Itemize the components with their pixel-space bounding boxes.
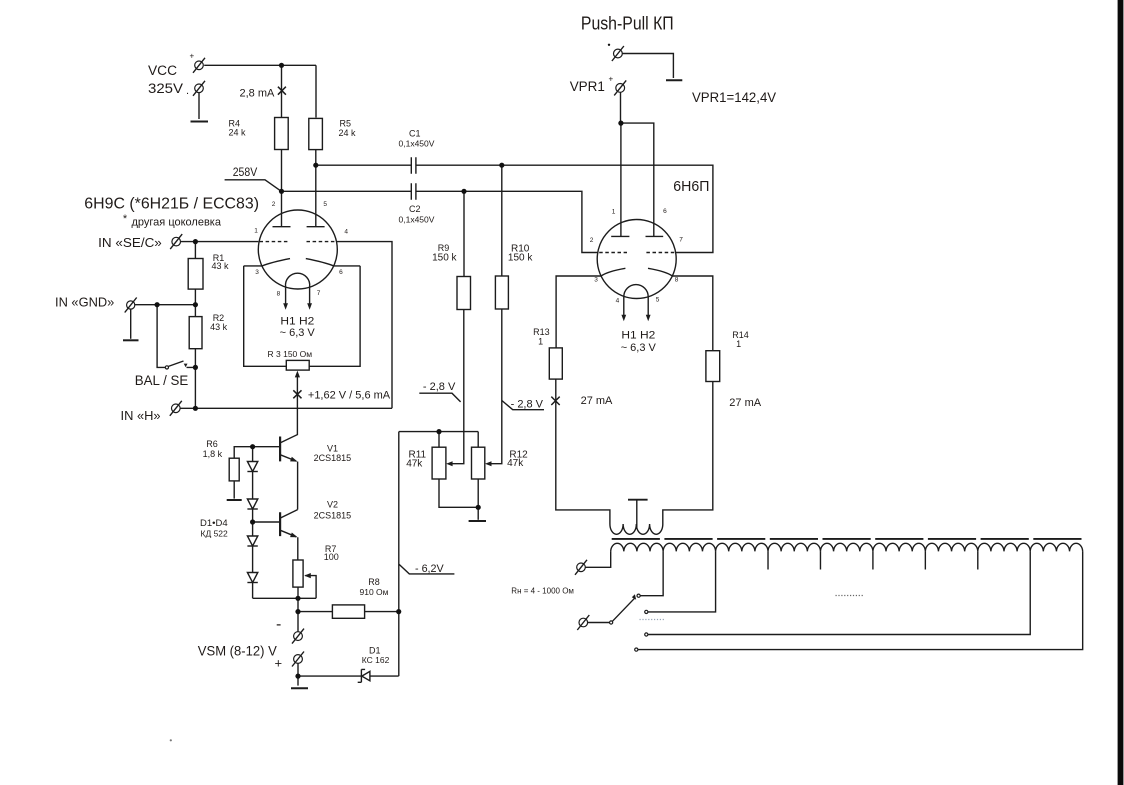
svg-text:5: 5 — [323, 201, 327, 208]
svg-text:27 mA: 27 mA — [581, 395, 613, 407]
svg-text:910 Ом: 910 Ом — [360, 587, 389, 597]
svg-text:6: 6 — [339, 269, 343, 276]
svg-text:47k: 47k — [507, 458, 524, 469]
svg-text:IN «SE/C»: IN «SE/C» — [98, 235, 162, 250]
svg-text:8: 8 — [675, 277, 679, 284]
svg-text:C1: C1 — [409, 129, 421, 139]
svg-text:100: 100 — [324, 552, 339, 562]
svg-text:R5: R5 — [340, 118, 352, 128]
svg-text:43 k: 43 k — [212, 261, 230, 271]
svg-text:2: 2 — [590, 237, 594, 244]
svg-text:КС 162: КС 162 — [362, 655, 390, 665]
svg-text:0,1x450V: 0,1x450V — [399, 215, 435, 225]
svg-text:- 2,8 V: - 2,8 V — [511, 399, 544, 411]
svg-text:D1: D1 — [369, 645, 381, 655]
svg-text:258V: 258V — [233, 167, 258, 179]
svg-text:V1: V1 — [327, 443, 338, 453]
svg-text:43 k: 43 k — [210, 322, 228, 332]
svg-text:27 mA: 27 mA — [729, 397, 761, 409]
svg-text:~ 6,3 V: ~ 6,3 V — [280, 327, 316, 339]
svg-text:+: + — [609, 75, 614, 84]
svg-text:.: . — [186, 85, 189, 97]
svg-text:2CS1815: 2CS1815 — [314, 453, 352, 463]
svg-text:47k: 47k — [406, 459, 423, 470]
svg-text:2CS1815: 2CS1815 — [314, 511, 352, 521]
svg-text:0,1x450V: 0,1x450V — [399, 139, 435, 149]
svg-text:C2: C2 — [409, 204, 421, 214]
svg-text:+: + — [275, 656, 283, 671]
svg-text:D1•D4: D1•D4 — [200, 518, 228, 529]
svg-text:BAL / SE: BAL / SE — [135, 372, 189, 388]
svg-text:V2: V2 — [327, 500, 338, 510]
svg-text:VPR1=142,4V: VPR1=142,4V — [692, 90, 776, 105]
svg-text:6: 6 — [663, 208, 667, 215]
svg-text:- 6,2V: - 6,2V — [415, 563, 444, 575]
svg-text:R6: R6 — [206, 439, 218, 449]
svg-text:4: 4 — [616, 297, 620, 304]
svg-text:R13: R13 — [533, 327, 550, 337]
svg-text:Rн = 4 - 1000 Ом: Rн = 4 - 1000 Ом — [511, 587, 574, 596]
svg-text:24 k: 24 k — [229, 128, 247, 138]
svg-text:VCC: VCC — [148, 63, 177, 78]
svg-text:7: 7 — [679, 237, 683, 244]
svg-text:5: 5 — [656, 297, 660, 304]
svg-text:R8: R8 — [368, 577, 380, 587]
svg-text:7: 7 — [317, 290, 321, 297]
svg-text:1: 1 — [538, 336, 543, 346]
svg-text:Push-Pull КП: Push-Pull КП — [581, 14, 674, 34]
svg-text:IN «H»: IN «H» — [121, 408, 161, 423]
svg-text:- 2,8 V: - 2,8 V — [423, 381, 456, 393]
svg-text:R 3 150 Ом: R 3 150 Ом — [268, 349, 313, 359]
svg-text:150 k: 150 k — [432, 253, 457, 264]
svg-text:1: 1 — [612, 209, 616, 216]
svg-text:2,8 mA: 2,8 mA — [240, 88, 276, 100]
svg-text:8: 8 — [277, 291, 281, 298]
svg-text:3: 3 — [594, 277, 598, 284]
svg-text:КД 522: КД 522 — [201, 528, 229, 538]
svg-text:150 k: 150 k — [508, 253, 533, 264]
svg-text:1: 1 — [736, 339, 741, 349]
svg-text:1,8 k: 1,8 k — [203, 449, 223, 459]
svg-text:6Н6П: 6Н6П — [673, 178, 709, 195]
svg-text:-: - — [276, 616, 281, 633]
svg-text:3: 3 — [255, 269, 259, 276]
svg-text:6Н9С (*6Н21Б / ECC83): 6Н9С (*6Н21Б / ECC83) — [84, 196, 259, 213]
svg-text:IN «GND»: IN «GND» — [55, 295, 114, 310]
svg-text:~ 6,3 V: ~ 6,3 V — [621, 342, 657, 354]
svg-text:2: 2 — [272, 201, 276, 208]
svg-text:H1 H2: H1 H2 — [280, 316, 314, 328]
svg-text:24 k: 24 k — [339, 128, 357, 138]
svg-text:+: + — [190, 52, 195, 61]
svg-text:*: * — [123, 213, 128, 225]
svg-text:+1,62 V / 5,6 mA: +1,62 V / 5,6 mA — [308, 390, 391, 402]
svg-text:325V: 325V — [148, 81, 183, 96]
svg-text:4: 4 — [344, 228, 348, 235]
svg-text:1: 1 — [254, 228, 258, 235]
svg-text:VPR1: VPR1 — [570, 78, 605, 94]
svg-text:H1 H2: H1 H2 — [621, 329, 655, 341]
svg-text:другая цоколевка: другая цоколевка — [132, 217, 222, 229]
svg-text:VSM (8-12) V: VSM (8-12) V — [198, 643, 277, 658]
